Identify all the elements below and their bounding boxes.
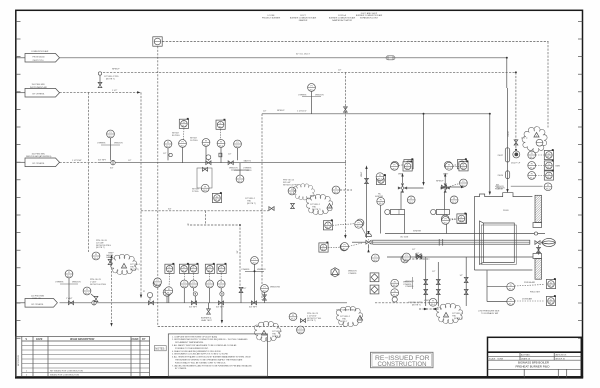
svg-text:3/4" NPT: 3/4" NPT [189, 307, 198, 309]
svg-text:(NOTE 6): (NOTE 6) [272, 336, 281, 338]
igniter train B [431, 158, 468, 233]
duct drop to windbox [506, 57, 508, 59]
svg-text:FUNCTIONALITY WILL BE TURNED O: FUNCTIONALITY WILL BE TURNED OVER TO THE… [175, 361, 226, 364]
BMS square purge [524, 278, 556, 289]
svg-text:(NOTE 7): (NOTE 7) [454, 318, 463, 320]
svg-text:VENDOR: VENDOR [229, 168, 238, 170]
svg-text:150 PSIG MIN: 150 PSIG MIN [32, 84, 45, 86]
svg-text:VENDOR: VENDOR [496, 188, 505, 190]
svg-text:IGNITER: IGNITER [413, 231, 422, 233]
BMS boxed instruments above [179, 118, 188, 129]
PRV under bypass [192, 184, 209, 193]
svg-text:FUEL OIL: FUEL OIL [33, 298, 43, 300]
svg-text:3/4" NPT: 3/4" NPT [216, 307, 225, 309]
PCV cluster at 147-154 [143, 291, 153, 301]
AT circle + box lower left [442, 213, 467, 225]
svg-text:1/2": 1/2" [412, 249, 416, 251]
svg-text:NOTES:: NOTES: [155, 347, 165, 351]
atomizing air line (solid) [98, 162, 346, 164]
svg-text:OTHERS: OTHERS [97, 143, 106, 145]
BMS square lowdown [522, 295, 556, 306]
svg-text:1 1/4"x1/2": 1 1/4"x1/2" [297, 111, 307, 113]
svg-text:✎: ✎ [25, 338, 27, 341]
svg-text:80 PSIG: 80 PSIG [172, 135, 180, 137]
svg-text:1 1/2"X3/4": 1 1/2"X3/4" [72, 160, 82, 162]
svg-text:PURGE AIR: PURGE AIR [524, 281, 535, 284]
svg-text:TEMP GAUGE CABLE: TEMP GAUGE CABLE [336, 309, 357, 312]
seal air line to lower damper [387, 256, 533, 258]
svg-text:DAMPER: DAMPER [299, 19, 308, 22]
svg-text:OTHERS: OTHERS [243, 168, 252, 170]
PSL 36-16 + valve [401, 249, 430, 263]
svg-text:INSTRUMENT AIR: INSTRUMENT AIR [30, 86, 47, 89]
svg-text:RE−ISSUED FOR CONSTRUCTION: RE−ISSUED FOR CONSTRUCTION [50, 370, 83, 372]
svg-text:100 PSIG MIN: 100 PSIG MIN [31, 295, 44, 297]
svg-text:32" O.D. DUCT: 32" O.D. DUCT [296, 54, 310, 56]
signal line top (dashed) [162, 41, 548, 43]
svg-text:VENDORS: VENDORS [270, 286, 281, 288]
svg-text:BMS: BMS [556, 166, 561, 168]
svg-text:CONSTRUCTION: CONSTRUCTION [378, 361, 427, 368]
gas line vent continuation dashed [375, 302, 436, 304]
tap header [487, 271, 507, 302]
atomizing valve 4 [228, 161, 233, 165]
svg-text:2. INSTRUMENT AIR SUPPLY CONN: 2. INSTRUMENT AIR SUPPLY CONNECTIONS REQ… [172, 338, 248, 341]
svg-text:5. INSTRUMENT COOLING AIR SUP: 5. INSTRUMENT COOLING AIR SUPPLY IS TO B… [172, 353, 229, 356]
PI under oil valve [371, 254, 379, 262]
header row [22, 340, 150, 342]
lower dashed header to burner [158, 326, 347, 328]
svg-text:TO FURNACE TAP: TO FURNACE TAP [481, 312, 499, 315]
PRV-36-25 regulator [83, 279, 106, 301]
instrument air drop at x141 [140, 92, 142, 295]
PIT circle left of windbox [445, 160, 468, 171]
svg-text:OTHERS: OTHERS [348, 273, 357, 275]
twin valves on dashed riser [405, 257, 428, 307]
svg-text:VENDOR: VENDOR [114, 143, 123, 145]
seal air drop to igniter cross [423, 114, 425, 183]
instrument air drop at x88.5 [88, 92, 90, 252]
svg-text:OIL GUN: OIL GUN [400, 236, 409, 238]
svg-text:23026: 23026 [498, 175, 504, 177]
air supply regulator at header start [98, 72, 102, 88]
gun tip valve [535, 241, 540, 245]
branch drop to solenoid row [205, 211, 207, 224]
windbox outline [474, 193, 532, 270]
igniter capsule [506, 171, 510, 179]
svg-text:3/4": 3/4" [237, 250, 239, 254]
PI 36-xx bubbles above atomizing line [164, 131, 241, 162]
igniter gun B [436, 210, 449, 215]
service air dashed branch [141, 210, 269, 212]
svg-text:1/2": 1/2" [338, 70, 342, 72]
vertical dashed x111.5 with arrows [110, 254, 112, 326]
HC hand controller on top signal line [153, 37, 162, 46]
signal drop right side [547, 42, 549, 128]
svg-text:23027−LP: 23027−LP [511, 162, 521, 164]
flag: 150 psig min instrument air [17, 84, 60, 97]
PCV on service air dashed riser [154, 278, 162, 286]
border tick marks left [16, 22, 21, 339]
igniter gas line [385, 233, 545, 235]
seal air source riser (dashed) [261, 114, 263, 300]
instrument air header (dashed) [100, 71, 516, 73]
svg-text:4. SEAL/COOLING AIR REQUIREME: 4. SEAL/COOLING AIR REQUIREMENT IS 1900 … [172, 350, 221, 353]
svg-text:JATSCSB JS: JATSCSB JS [555, 353, 567, 356]
instrument air stub from flag2 [60, 91, 138, 93]
note column: loose project burner [262, 15, 281, 19]
svg-text:1/2": 1/2" [416, 253, 420, 255]
svg-text:(NOTE 7): (NOTE 7) [106, 78, 115, 80]
note column: expansion joint [356, 12, 383, 20]
ball valve [92, 301, 96, 305]
svg-text:EXPANSION JOINT: EXPANSION JOINT [360, 17, 379, 20]
svg-text:7. VALVES, INSTRUMENTS, AND F: 7. VALVES, INSTRUMENTS, AND FITTINGS TO … [172, 364, 252, 367]
PSL circles row [180, 273, 225, 288]
svg-text:1/2": 1/2" [263, 111, 267, 113]
wall damper box upper [533, 223, 542, 228]
cloud bottom right [429, 298, 463, 323]
gas line valves [191, 301, 196, 305]
svg-text:CHKD: CHKD [132, 338, 139, 341]
seal/cooling air line [262, 113, 490, 115]
svg-text:REVISIONS: REVISIONS [18, 354, 20, 366]
svg-text:1/2": 1/2" [243, 288, 247, 290]
wall damper box lower [533, 254, 542, 259]
svg-text:23020: 23020 [503, 210, 509, 212]
fuel gas main line [60, 302, 348, 304]
svg-text:SCALE: SCALE [489, 357, 496, 360]
scanner air drop [489, 114, 491, 193]
PSL small [376, 173, 384, 181]
border tick marks right [578, 22, 583, 339]
svg-text:OTHERS: OTHERS [298, 94, 307, 96]
dashed riser x469 [465, 257, 467, 306]
svg-text:3/4" NPT: 3/4" NPT [249, 307, 258, 309]
svg-text:1. COMPLIES WITH THE INTENT O: 1. COMPLIES WITH THE INTENT OF 46137−A (… [172, 335, 218, 338]
svg-text:LEAK TEST: LEAK TEST [201, 319, 213, 322]
svg-text:(NOTE 7): (NOTE 7) [412, 305, 421, 307]
svg-text:COMBUSTION AIR: COMBUSTION AIR [31, 50, 49, 53]
BMS square left of oil valve [319, 242, 328, 253]
svg-text:1/2": 1/2" [163, 153, 167, 155]
svg-text:SET AT 3.5 PSIG: SET AT 3.5 PSIG [283, 183, 299, 186]
rev cloud top right [508, 127, 547, 153]
svg-text:(NOTE 7): (NOTE 7) [307, 320, 316, 322]
svg-text:PREHEAT BURNER P&ID: PREHEAT BURNER P&ID [516, 364, 550, 368]
svg-text:3/4": 3/4" [168, 208, 172, 210]
flag: 100 psig min fuel oil [17, 295, 58, 307]
svg-text:FIELD SET: FIELD SET [530, 291, 541, 293]
svg-text:1/2": 1/2" [460, 275, 464, 277]
atomizing air flag stub (dashed) [60, 162, 98, 164]
notes label box [154, 346, 166, 351]
svg-text:2 PSIG: 2 PSIG [192, 191, 199, 193]
PSH circle [507, 283, 544, 291]
PI 36-05 [261, 285, 281, 303]
svg-text:SET AT 100 PSIG: SET AT 100 PSIG [90, 283, 106, 286]
burner leak test drop [201, 303, 223, 324]
dashed jog [188, 224, 240, 287]
atomizing drop to oil valve [344, 72, 346, 236]
flame rod capsule [505, 148, 509, 162]
gate valve at 71 [68, 301, 73, 305]
svg-text:BY: BY [142, 338, 146, 341]
svg-text:23027 PY10: 23027 PY10 [33, 60, 45, 62]
PSL 36-08 under first square [165, 273, 173, 302]
svg-text:10 PSIG: 10 PSIG [190, 140, 198, 142]
igniter gun [391, 210, 405, 215]
rev cloud bottom center [336, 306, 363, 326]
vertical dashed x157.8 [157, 46, 159, 326]
dashed riser x434 [437, 262, 439, 306]
TI 36-01 [241, 257, 266, 303]
PE/vendor circle [496, 183, 552, 191]
PSL circle [507, 298, 544, 306]
bottom heavy border [15, 376, 583, 378]
svg-text:3/4" NPT: 3/4" NPT [98, 159, 107, 161]
PI on duct stub [298, 84, 324, 114]
PI fuel oil [55, 270, 81, 301]
flame [542, 238, 556, 246]
gun mount bowtie below [537, 245, 541, 255]
circle 36-06 [153, 280, 161, 288]
inline duct flex symbol [386, 56, 395, 60]
svg-text:BY OTHERS.: BY OTHERS. [175, 368, 187, 370]
svg-text:1/2": 1/2" [432, 271, 436, 273]
windbox inner panel [480, 221, 515, 264]
riser at 241 [239, 287, 247, 302]
svg-text:CABLE: CABLE [106, 256, 113, 259]
flag: 150 psig service air atomizing [17, 153, 60, 166]
svg-text:NPS/UP: NPS/UP [277, 110, 285, 112]
bypass box with PSV [197, 167, 212, 188]
svg-text:BY OTHERS .: BY OTHERS . [33, 93, 46, 95]
svg-text:DRY AMBIENT TEMPERATURE.: DRY AMBIENT TEMPERATURE. [175, 341, 204, 344]
PDI circle near oil valve [355, 220, 367, 236]
svg-text:VENT: VENT [361, 171, 363, 177]
gate fitting on MOV stub [219, 153, 222, 157]
solenoid vent circles [184, 288, 224, 303]
svg-text:VENDOR: VENDOR [315, 94, 324, 96]
PRV-36-24 cluster [245, 180, 315, 211]
svg-text:VENT: VENT [443, 173, 449, 175]
triple gauge stack [391, 279, 412, 302]
PE instrument column circles [528, 149, 561, 180]
burner gun barrel [373, 239, 530, 246]
note column: damper actuator [329, 14, 356, 22]
temp gauge cloud [110, 254, 136, 274]
air flow valve into windbox [436, 181, 465, 189]
svg-text:1/2": 1/2" [128, 160, 132, 162]
svg-text:(NOTE 7): (NOTE 7) [312, 209, 321, 211]
BMS box lower [212, 192, 221, 203]
boiler wall hatch upper [535, 195, 542, 222]
svg-text:DAMPER ACTUATOR: DAMPER ACTUATOR [332, 19, 352, 22]
svg-text:OTHERS: OTHERS [241, 269, 250, 271]
svg-text:6. ALL ITEMS WITH ■ ARE CONTR: 6. ALL ITEMS WITH ■ ARE CONTROLLED BY BU… [172, 356, 251, 359]
PDI 36-15 circle [341, 243, 362, 251]
svg-text:(NOTE 7): (NOTE 7) [130, 269, 139, 271]
svg-text:SERVICE AIR (ATOMIZING): SERVICE AIR (ATOMIZING) [26, 155, 52, 158]
strainer/check at 151 [148, 301, 153, 305]
TI circle [163, 289, 171, 303]
svg-text:THE BURNER IS VERIFIED TO BE O: THE BURNER IS VERIFIED TO BE OPERATING S… [175, 359, 243, 362]
svg-text:(NOTE 7): (NOTE 7) [96, 247, 105, 249]
svg-text:1/2": 1/2" [228, 154, 232, 156]
igniter train A [375, 158, 424, 233]
svg-text:GATE N: GATE N [244, 160, 252, 163]
svg-text:DATE: DATE [36, 338, 43, 341]
svg-text:AUX MATL: AUX MATL [521, 353, 530, 356]
PT + BMS pair top [391, 161, 413, 172]
svg-text:BY OTHERS .: BY OTHERS . [32, 304, 45, 306]
scanner riser [507, 88, 509, 190]
oil gun line [352, 241, 366, 243]
svg-text:3. ALL SAFETY SHUTOFF VALVES: 3. ALL SAFETY SHUTOFF VALVES ARE TO BE L… [172, 344, 237, 347]
svg-text:BY OTHERS .: BY OTHERS . [33, 163, 46, 165]
TE circle right [332, 186, 352, 194]
svg-text:NPS/UP: NPS/UP [112, 68, 120, 70]
igniter wall entry [534, 232, 537, 235]
TW thermowell [289, 313, 322, 323]
row lines [22, 345, 150, 347]
atomizing line ball valve [110, 161, 115, 170]
svg-text:23027: 23027 [508, 130, 510, 136]
svg-text:NONE: NONE [498, 358, 504, 360]
notes box [168, 334, 267, 376]
svg-text:FROM 23000: FROM 23000 [33, 56, 46, 58]
PRV circle [92, 252, 100, 260]
cloud with warn triangle [306, 194, 332, 214]
interlock squares stack [370, 273, 379, 282]
svg-text:POSSIBLE TO THE BURNER FRONT.: POSSIBLE TO THE BURNER FRONT. [175, 348, 209, 350]
note column: burner combustion air damper [290, 15, 317, 22]
flag: combustion air from 23000 [17, 50, 60, 62]
PA gauge on seal line [403, 253, 422, 261]
svg-text:NPS/UP: NPS/UP [436, 181, 444, 183]
stub fitting under PI [163, 153, 172, 157]
svg-text:GROUP JS: GROUP JS [555, 358, 565, 360]
control valve PCV on atomizing line [206, 155, 211, 165]
svg-text:ISSUE DESCRIPTION: ISSUE DESCRIPTION [70, 338, 94, 341]
svg-text:VENDOR: VENDOR [257, 269, 266, 271]
svg-text:VENDOR: VENDOR [72, 282, 81, 284]
scanner eye [513, 151, 520, 158]
svg-text:PROJECT BURNER: PROJECT BURNER [262, 18, 281, 20]
svg-text:DOWN AIR: DOWN AIR [522, 298, 533, 301]
svg-text:ISSUED FOR CONSTRUCTION: ISSUED FOR CONSTRUCTION [50, 375, 79, 377]
svg-text:OTHERS: OTHERS [55, 282, 64, 284]
svg-text:3/4": 3/4" [110, 168, 114, 170]
svg-text:150 PSIG MIN.: 150 PSIG MIN. [32, 153, 46, 155]
svg-text:1 1/2": 1 1/2" [112, 90, 117, 92]
BMS squares row over gas line [165, 263, 227, 274]
boiler wall hatch lower [535, 259, 542, 280]
oil control valve [366, 231, 372, 252]
svg-text:23027: 23027 [498, 155, 504, 157]
combustion air duct line [60, 57, 507, 59]
squares above oil valve [323, 219, 332, 230]
vendor/others circle below line [229, 163, 252, 183]
PI on atomizing line [97, 130, 123, 160]
svg-text:(NOTE 7): (NOTE 7) [247, 203, 256, 205]
flame detector hexagon [331, 268, 357, 277]
cloud bottom left [254, 321, 304, 341]
svg-text:NOTE 7: NOTE 7 [340, 321, 348, 323]
